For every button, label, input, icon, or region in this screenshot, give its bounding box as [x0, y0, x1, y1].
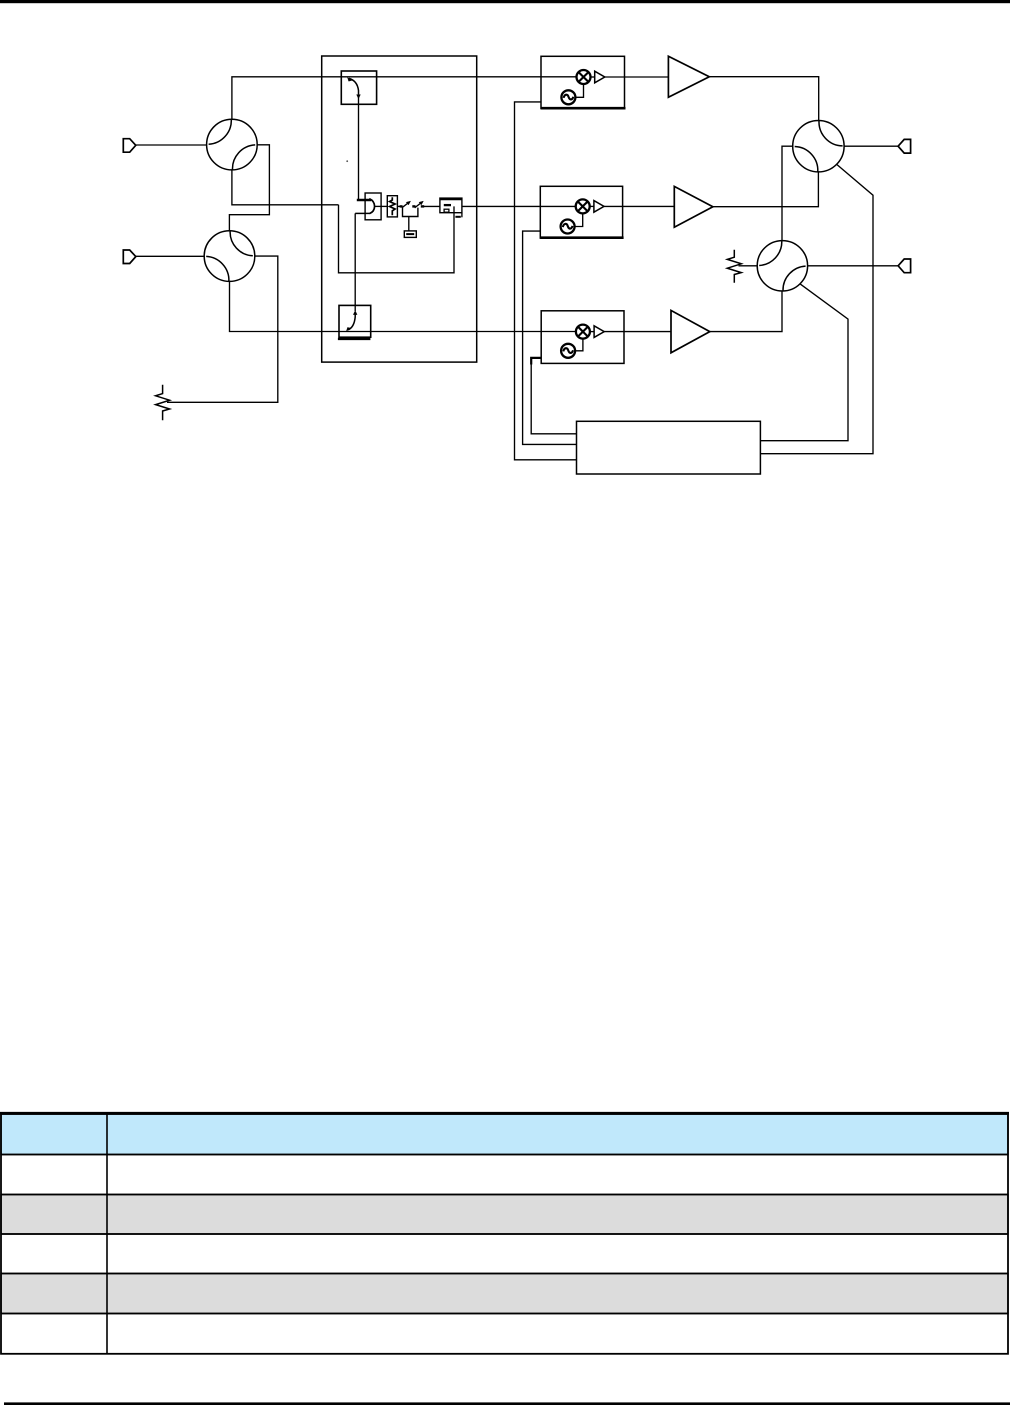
table outer border	[1, 1114, 1008, 1354]
wire U3 bottom to amp A2	[713, 172, 819, 207]
DC block (small box with bar)	[404, 231, 416, 238]
stray mark	[346, 160, 348, 162]
combiner block	[365, 193, 381, 220]
table row line 1	[1, 1154, 1008, 1156]
top header rule	[0, 0, 1010, 3]
resistor R2 (termination at U4)	[727, 250, 741, 283]
detector block	[440, 198, 462, 217]
LO line 3 corner (bold)	[531, 358, 541, 365]
wire M1 to amp A1	[605, 76, 669, 78]
switch contact a	[400, 205, 403, 207]
input port J2	[123, 250, 136, 264]
wire U4 to output port J4	[808, 265, 899, 267]
wire U3 left to circulator U4 top	[782, 146, 793, 241]
wire U1 right to circulator U2 top	[229, 145, 269, 231]
switch contact c	[421, 205, 424, 207]
switch contact b	[412, 205, 415, 207]
wire U2 bottom to Tx3 row	[230, 281, 340, 331]
switch body (open-top box)	[403, 208, 418, 217]
wire U1 top to Tx1 row	[232, 77, 341, 120]
bottom footer rule	[4, 1402, 1010, 1405]
wire attenuator to switches	[397, 205, 401, 207]
wire switches to detector block	[424, 205, 440, 207]
table column divider	[106, 1114, 108, 1354]
table row 2 fill (gray)	[1, 1195, 1008, 1235]
controller / LO distribution box	[577, 421, 761, 474]
mixer block M2	[540, 186, 623, 238]
circulator U3 (upper right)	[793, 121, 844, 172]
mixer block M1	[541, 56, 626, 108]
wire S1 down to combiner	[358, 96, 360, 200]
variable attenuator block	[387, 196, 397, 217]
mixer block M3	[541, 311, 624, 364]
table row line 2	[1, 1194, 1008, 1196]
wire Tx3 row through switch to mixer3	[339, 331, 576, 333]
switch lever SW-b	[415, 202, 423, 208]
wire U4 coupled port to controller (diagonal)	[760, 284, 848, 441]
wire U3 to output port J3	[844, 145, 898, 147]
input port J1	[123, 139, 136, 153]
wire J2 to circulator U2	[136, 255, 205, 257]
wire A1 to circulator U3 top	[709, 77, 818, 121]
switch lever SW-a	[402, 202, 410, 208]
combiner input stub (bold)	[357, 199, 371, 202]
circulator U2 (lower left)	[204, 231, 255, 282]
LO line 1 (mixer1 to controller)	[515, 102, 577, 460]
LO line 2 (mixer2 to controller)	[523, 231, 577, 444]
wire combiner to attenuator	[375, 205, 388, 207]
combiner lower input stub (bold)	[355, 212, 370, 214]
table header row fill	[1, 1114, 1008, 1155]
wire R2 to U4	[739, 265, 758, 267]
wire Tx1 row through switch to mixer1	[341, 76, 576, 78]
wire detector bottom feedback bus	[339, 205, 455, 273]
wire J1 to circulator U1	[136, 144, 207, 146]
circulator U4 (lower right)	[757, 241, 807, 291]
table row line 5	[1, 1313, 1008, 1315]
switch S2 (bottom, Tx3)	[338, 305, 371, 339]
circulator U1 (upper left)	[207, 119, 258, 170]
wire detector to mixer2 block	[462, 205, 576, 207]
wire M2 to amp A2	[604, 205, 674, 207]
wire S2 up to combiner lower input	[354, 213, 356, 311]
amplifier A1	[668, 56, 709, 97]
output port J3	[898, 139, 911, 153]
wire M3 to amp A3	[604, 331, 671, 333]
table row line 3	[1, 1233, 1008, 1235]
wire switch body to DC block	[408, 217, 410, 231]
wire U2 right to termination resistor R1	[167, 256, 278, 402]
table row 4 fill (gray)	[1, 1274, 1008, 1314]
wire U3 coupled port to controller (diagonal)	[760, 164, 873, 453]
resistor R1 (termination)	[156, 385, 170, 421]
wire U4 bottom to amp A3	[710, 291, 782, 332]
TABLE	[0, 1113, 1009, 1354]
amplifier A2	[674, 186, 713, 227]
table top border (thick)	[0, 1112, 1009, 1115]
output port J4	[898, 259, 911, 273]
table row line 4	[1, 1273, 1008, 1275]
switch S1 (top, Tx1/coupling)	[341, 71, 376, 104]
switch matrix enclosure box	[322, 56, 477, 362]
amplifier A3	[671, 310, 710, 352]
LO line 3 (mixer3 to controller)	[531, 358, 576, 434]
wire U1 bottom to switch-matrix input	[232, 170, 339, 205]
